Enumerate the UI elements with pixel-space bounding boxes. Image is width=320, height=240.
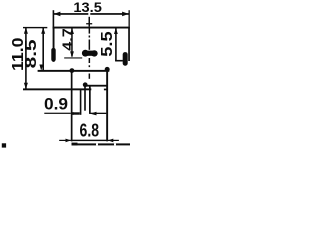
dimension line 13.5 [54,13,89,15]
internal contact bar [82,50,89,57]
dimension 5.5 line [115,28,117,62]
body bottom line [38,70,110,72]
centerline middle dashes [89,28,91,33]
dimension line 6.8 [71,140,108,141]
right side terminal pad [123,52,128,66]
body right edge [128,27,130,61]
right leg [106,70,108,142]
center lead horizontal run [87,85,107,87]
center leg left outline [84,87,86,111]
dimension 0.9 arrow bar [72,112,80,114]
dimension 4.7 line [71,28,73,57]
extension line left (13.5) [53,10,55,27]
svg-text:5.5: 5.5 [99,31,116,57]
board seating line [23,88,91,90]
dimension 11.0 line [25,28,27,89]
svg-text:6.8: 6.8 [80,120,100,140]
svg-text:13.5: 13.5 [73,0,102,15]
body left edge [53,27,55,62]
left side terminal pad [51,48,55,62]
stray hatch mark bottom left [2,143,6,147]
svg-text:0.9: 0.9 [44,96,68,114]
junction dot center lead [83,82,88,87]
leader 5.5 to right pad [115,60,123,62]
extension line right (13.5) / body right edge [129,10,130,27]
centerline top dash and center mark [89,17,91,22]
svg-text:4.7: 4.7 [60,28,77,51]
body top line [53,27,130,29]
dimension 0.9 leader line [44,113,71,114]
svg-text:8.5: 8.5 [23,39,40,68]
left leg right outline below board [80,89,82,115]
center leg right outline [89,87,91,114]
dimension 8.5 line [42,28,44,71]
junction dot right leg [105,67,110,72]
left leg [71,71,73,142]
leg tip line center [90,113,106,114]
internal contact plate line [64,57,82,58]
extension line top (for 11.0 / 8.5) [23,27,47,28]
junction dot left leg [70,68,75,73]
board edge hatch line [72,143,131,145]
